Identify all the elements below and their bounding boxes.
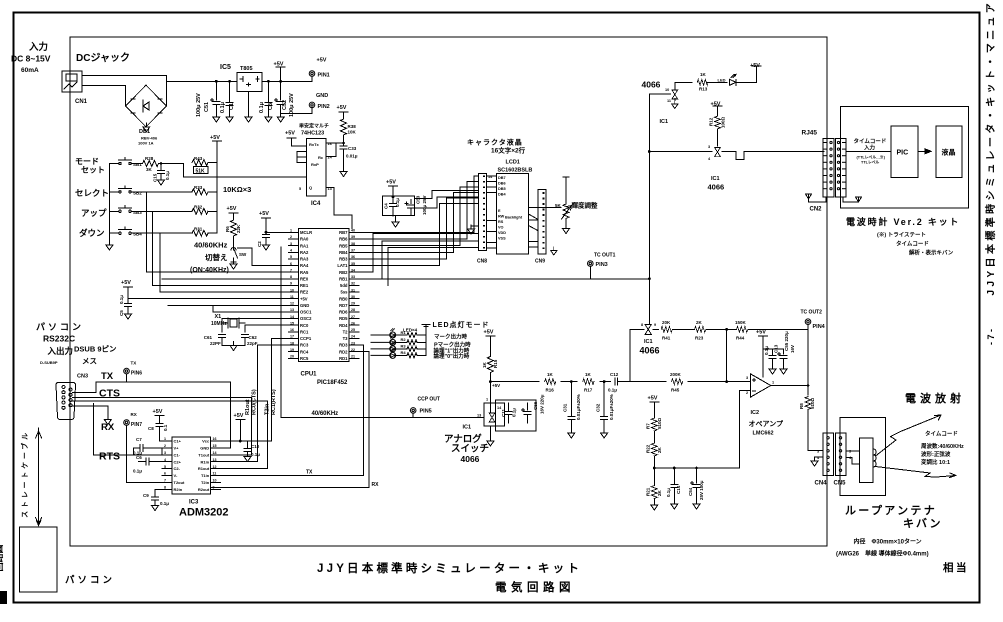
svg-text:R1out: R1out: [198, 466, 210, 471]
svg-text:10: 10: [665, 88, 669, 92]
svg-text:8: 8: [641, 323, 643, 327]
svg-text:RA2: RA2: [300, 250, 309, 255]
wire LED row to rail: [419, 354, 426, 356]
svg-text:入力: 入力: [28, 41, 48, 53]
wire CN2 ground hook right: [843, 197, 859, 202]
svg-text:入力: 入力: [863, 144, 876, 152]
svg-text:セレクト: セレクト: [75, 188, 109, 198]
svg-text:メス: メス: [82, 357, 97, 366]
wire gate to R13: [675, 82, 692, 90]
wire CN4 ground pin: [815, 457, 823, 461]
svg-text:RxTx: RxTx: [309, 142, 320, 147]
svg-text:3K: 3K: [146, 167, 153, 172]
capacitor C54 100u 25V: [691, 467, 701, 509]
svg-text:22: 22: [351, 348, 355, 352]
resistor R17 1K: [583, 379, 594, 385]
svg-text:R2in: R2in: [174, 487, 183, 492]
svg-text:IC3: IC3: [189, 500, 199, 506]
svg-text:DSUB 9ピン: DSUB 9ピン: [74, 344, 117, 354]
connector pin PIN4 TC OUT2: [805, 319, 811, 330]
svg-text:40/60KHz: 40/60KHz: [194, 241, 228, 250]
svg-text:C1+: C1+: [174, 439, 182, 444]
left margin black mark: [0, 591, 7, 604]
wire pot wiper to LCD: [529, 207, 562, 209]
wire CN8 to LCD stubs: [487, 176, 497, 248]
svg-text:0.1μ: 0.1μ: [251, 452, 260, 457]
resistor R31: [192, 230, 217, 236]
connector pin PIN6 TX: [124, 368, 130, 382]
IC3 ADM3202 box: [172, 437, 211, 494]
capacitor C1 0.1u: [226, 81, 233, 122]
svg-text:17: 17: [290, 335, 294, 339]
svg-text:RX: RX: [372, 482, 380, 488]
resistor R22 2K: [651, 443, 657, 468]
resistor R43 51K: [192, 160, 208, 166]
wire T2in vertical: [211, 401, 268, 469]
svg-text:C53: C53: [416, 195, 421, 204]
capacitor C55 220u 16V: [773, 349, 788, 374]
svg-text:GND: GND: [300, 303, 309, 308]
connector CN5: [836, 433, 846, 476]
svg-text:R1out: R1out: [245, 399, 251, 415]
wire IC4 pin16 to R38: [326, 136, 344, 143]
svg-text:Vcc: Vcc: [202, 439, 210, 444]
svg-text:DCジャック: DCジャック: [76, 52, 130, 64]
svg-text:SB1: SB1: [133, 162, 142, 167]
svg-text:C31: C31: [563, 403, 568, 412]
svg-text:0.1μ: 0.1μ: [165, 171, 170, 180]
svg-text:タイムコード: タイムコード: [925, 430, 958, 438]
svg-text:RC0: RC0: [300, 323, 309, 328]
svg-text:内径 Φ30mm×10ターン: 内径 Φ30mm×10ターン: [854, 538, 922, 546]
svg-text:C10: C10: [251, 444, 260, 449]
svg-text:セット: セット: [81, 166, 105, 175]
wire LED row to rail: [419, 334, 426, 336]
svg-text:R12: R12: [709, 117, 714, 126]
svg-text:0.01μ: 0.01μ: [346, 154, 358, 159]
svg-text:JJY日本標準時シミュレーター・キット: JJY日本標準時シミュレーター・キット: [317, 561, 582, 575]
svg-text:GND: GND: [200, 446, 209, 451]
svg-text:キバン: キバン: [903, 517, 943, 530]
svg-text:(TTLレベル…※): (TTLレベル…※): [857, 155, 886, 160]
power +5V for MCLR: [262, 218, 289, 232]
svg-text:14: 14: [488, 175, 493, 179]
junction rail/TC bus: [648, 277, 651, 280]
svg-text:R2: R2: [401, 337, 407, 342]
svg-text:0.1μ: 0.1μ: [764, 346, 769, 355]
capacitor C61 22pF: [219, 335, 234, 346]
power +5V for IC4: [287, 138, 307, 146]
svg-text:Q: Q: [309, 185, 312, 190]
svg-text:R23: R23: [695, 336, 704, 341]
wire IC4 input pins: [297, 152, 307, 163]
svg-text:+5V: +5V: [210, 135, 220, 141]
svg-text:R13: R13: [699, 87, 708, 92]
svg-text:5: 5: [290, 255, 292, 259]
svg-text:RB5: RB5: [339, 243, 348, 248]
pushbutton SB2: [109, 186, 192, 193]
arrow PIC to LCD: [918, 149, 931, 154]
wire rail into switch: [489, 382, 491, 412]
capacitor C12 0.1u coupling: [615, 378, 618, 385]
wire loop mid vertical: [726, 329, 728, 381]
svg-text:C15: C15: [153, 173, 158, 182]
svg-text:R22: R22: [646, 444, 651, 453]
svg-text:RB6: RB6: [339, 237, 348, 242]
wire MCLR vertical bus: [281, 247, 484, 418]
svg-text:25V 100μ: 25V 100μ: [699, 480, 704, 500]
svg-text:R6: R6: [225, 226, 230, 232]
svg-text:30: 30: [351, 295, 355, 299]
resistor R32: [192, 208, 217, 214]
svg-text:1: 1: [772, 381, 774, 385]
svg-text:LED点灯モード: LED点灯モード: [433, 320, 490, 329]
svg-text:CN8: CN8: [477, 259, 487, 265]
svg-text:CN1: CN1: [75, 99, 88, 105]
svg-text:ストレートケーブル: ストレートケーブル: [20, 430, 29, 518]
svg-text:C3: C3: [268, 103, 274, 110]
resistor R13 1K: [697, 79, 708, 85]
svg-text:+5V: +5V: [756, 330, 766, 336]
resistor R23 2K: [695, 326, 727, 332]
svg-text:RD1: RD1: [339, 356, 348, 361]
resistor R38 10K: [341, 117, 347, 143]
svg-text:+5V: +5V: [285, 131, 295, 137]
svg-text:5dd: 5dd: [340, 283, 348, 288]
svg-text:+5V: +5V: [259, 211, 269, 217]
svg-text:19: 19: [290, 348, 294, 352]
svg-text:RS232C: RS232C: [43, 334, 75, 344]
svg-text:C1-: C1-: [174, 452, 181, 457]
svg-text:5: 5: [164, 465, 166, 469]
wire LED common rail: [425, 329, 427, 356]
svg-text:PIN2: PIN2: [318, 104, 330, 110]
ground CN8 RW: [468, 225, 475, 234]
svg-text:PIN5: PIN5: [420, 409, 432, 415]
svg-text:+5V: +5V: [386, 180, 396, 186]
op-amp IC2 LMC662: [751, 374, 771, 397]
svg-text:IC1: IC1: [644, 339, 653, 345]
svg-text:TTLレベル: TTLレベル: [861, 160, 880, 165]
svg-text:3: 3: [164, 451, 166, 455]
svg-text:RB4: RB4: [339, 250, 348, 255]
svg-text:DB5: DB5: [498, 187, 506, 191]
antenna coil: [860, 438, 877, 483]
power C4 filter box: [383, 196, 415, 215]
LED D3 row: [371, 342, 406, 351]
svg-text:RD7: RD7: [339, 303, 348, 308]
radio wave arrow lower: [876, 467, 957, 478]
wire PIN2 to ground rail: [281, 108, 312, 114]
svg-text:C7: C7: [136, 437, 142, 442]
svg-text:RxP: RxP: [311, 162, 319, 167]
svg-text:22pF: 22pF: [247, 341, 258, 346]
svg-text:+5V: +5V: [711, 102, 721, 108]
wire long data to CN9 a: [359, 234, 479, 273]
svg-text:Rc: Rc: [318, 155, 324, 160]
svg-text:RC4: RC4: [300, 349, 309, 354]
svg-text:R8: R8: [799, 403, 804, 409]
ground for slide switch: [230, 260, 237, 269]
svg-text:RC3: RC3: [300, 343, 309, 348]
connector pin PIN7 RX: [124, 420, 172, 483]
wire LCD to CN9 stubs: [529, 214, 539, 247]
svg-text:E: E: [498, 209, 501, 213]
svg-text:74HC123: 74HC123: [301, 131, 324, 137]
svg-text:RC5: RC5: [300, 356, 309, 361]
svg-text:2K: 2K: [657, 489, 662, 496]
svg-text:+5V: +5V: [300, 296, 308, 301]
svg-text:0.01μF±20%: 0.01μF±20%: [609, 394, 614, 420]
svg-text:RD2: RD2: [339, 349, 348, 354]
svg-text:ダウン: ダウン: [79, 228, 105, 238]
svg-text:SB4: SB4: [133, 232, 142, 237]
svg-text:VO: VO: [498, 226, 504, 230]
svg-text:解析・表示キバン: 解析・表示キバン: [909, 249, 954, 257]
wire long data to CN9 c: [388, 247, 479, 285]
wire RC0 vertical: [211, 398, 252, 455]
svg-text:18: 18: [290, 341, 294, 345]
svg-text:PIN7: PIN7: [131, 422, 142, 428]
svg-text:40/60KHz: 40/60KHz: [312, 411, 339, 417]
svg-text:16V: 16V: [790, 345, 795, 353]
ADM right pin numbers: [213, 437, 217, 489]
svg-text:R17: R17: [584, 388, 593, 393]
svg-text:タイムコード: タイムコード: [896, 240, 929, 248]
svg-text:LCD1: LCD1: [506, 160, 520, 166]
capacitor C51 100u 25V: [210, 81, 220, 122]
svg-text:キャラクタ液晶: キャラクタ液晶: [467, 138, 523, 147]
loop antenna board box: [840, 418, 885, 496]
svg-text:0.1μ: 0.1μ: [512, 408, 517, 417]
svg-text:28: 28: [351, 308, 355, 312]
svg-text:波形:正弦波: 波形:正弦波: [921, 450, 951, 458]
svg-text:+5V: +5V: [492, 383, 500, 388]
svg-text:26: 26: [351, 321, 355, 325]
svg-text:7: 7: [290, 268, 292, 272]
svg-text:CPU1: CPU1: [301, 372, 318, 378]
connector CN4: [823, 433, 833, 476]
ground CN9 bottom: [551, 247, 557, 255]
wire main +V rail to IC5: [167, 80, 237, 82]
svg-text:0.1: 0.1: [163, 424, 168, 431]
svg-text:液晶: 液晶: [942, 148, 956, 157]
svg-text:RC0(CTS): RC0(CTS): [252, 389, 258, 415]
resistor R15 1K: [487, 341, 493, 382]
svg-text:0.1μ: 0.1μ: [395, 198, 400, 207]
svg-text:R28: R28: [145, 156, 154, 161]
svg-text:電波放射: 電波放射: [905, 391, 965, 405]
CPU right pin numbers: [351, 229, 355, 359]
analog switch gate symbol: [489, 413, 495, 422]
svg-text:10: 10: [213, 479, 217, 483]
svg-text:9: 9: [290, 282, 292, 286]
junction loop mid: [725, 328, 728, 331]
wire CTS row: [73, 398, 268, 401]
svg-text:0.1μ: 0.1μ: [160, 501, 169, 506]
svg-text:JJY日本標準時シミュレータ・キット・マニュアル: JJY日本標準時シミュレータ・キット・マニュアル: [984, 0, 997, 295]
inner schematic boundary box: [70, 37, 827, 546]
svg-text:C12: C12: [610, 372, 619, 377]
CPU left pin names: [300, 230, 312, 361]
resistor R44 150K: [727, 326, 808, 332]
svg-text:11: 11: [290, 295, 294, 299]
svg-text:23: 23: [351, 341, 355, 345]
svg-text:2: 2: [746, 391, 748, 395]
svg-text:+5V: +5V: [648, 396, 658, 402]
svg-text:C14: C14: [676, 485, 681, 494]
pushbutton SB1: [109, 158, 139, 165]
ground for switch rail: [106, 241, 113, 250]
svg-text:Backlight: Backlight: [505, 216, 523, 220]
resistor R21 2K: [651, 468, 658, 510]
wire TX from CPU: [211, 345, 364, 476]
capacitor C4 0.1u: [390, 196, 397, 216]
svg-text:RB0: RB0: [339, 296, 348, 301]
svg-text:MCLR: MCLR: [300, 230, 312, 235]
connector pin PIN3 TC OUT1: [588, 261, 594, 279]
regulator IC5 box: [237, 73, 262, 92]
capacitor C33 0.01u: [340, 142, 347, 177]
ground for crystal: [230, 342, 237, 351]
svg-text:5: 5: [299, 187, 301, 191]
svg-text:TC OUT1: TC OUT1: [594, 253, 616, 259]
svg-text:10K: 10K: [348, 130, 357, 135]
ADM right pin names: [198, 439, 210, 492]
wire feedback top: [653, 328, 694, 330]
svg-text:510Ω: 510Ω: [810, 397, 815, 409]
svg-text:オペアンプ: オペアンプ: [749, 419, 785, 428]
wire bus CPU to CN8 staircase: [359, 176, 479, 265]
wire SB4 staircase to CPU: [160, 233, 288, 292]
svg-text:LAT1: LAT1: [337, 263, 348, 268]
svg-text:T1out: T1out: [198, 452, 210, 457]
svg-text:TX: TX: [101, 371, 114, 382]
svg-text:10MHz: 10MHz: [211, 321, 227, 327]
ground bar for LED rail: [422, 325, 430, 329]
straight cable arrow: [36, 428, 42, 526]
svg-text:C56: C56: [533, 401, 538, 410]
wire R45 row: [630, 381, 751, 383]
svg-text:14: 14: [290, 315, 294, 319]
svg-text:RB2: RB2: [339, 270, 348, 275]
svg-text:C2-: C2-: [174, 466, 181, 471]
svg-text:1K: 1K: [547, 372, 554, 377]
wire GND row to CPU: [168, 304, 289, 306]
resistor R6 pullup: [231, 218, 237, 248]
svg-text:C2+: C2+: [174, 459, 182, 464]
svg-text:T805: T805: [240, 66, 253, 72]
svg-text:12: 12: [213, 465, 217, 469]
svg-text:9: 9: [654, 323, 656, 327]
junction at C52: [279, 80, 282, 83]
crystal X1 10MHz: [222, 318, 289, 332]
svg-text:100V 1A: 100V 1A: [138, 141, 154, 146]
power +5V for R38: [339, 112, 348, 117]
svg-text:RA4: RA4: [300, 263, 309, 268]
wire slide switch to CPU RA4: [238, 248, 289, 266]
svg-text:R45: R45: [671, 388, 680, 393]
resistor R28: [139, 161, 184, 167]
svg-text:+5V: +5V: [234, 413, 244, 419]
brightness pot 5K 輝度調整: [562, 177, 572, 224]
wire opamp plus input: [654, 390, 750, 468]
svg-text:PIN1: PIN1: [318, 73, 330, 79]
svg-text:V-: V-: [174, 473, 178, 478]
svg-text:R43: R43: [194, 156, 203, 161]
junction at C1: [228, 80, 231, 83]
svg-text:マーク出力時: マーク出力時: [434, 333, 468, 341]
svg-text:2K: 2K: [657, 446, 662, 453]
radio wave arrow upper: [876, 415, 941, 456]
junction output: [807, 384, 810, 387]
capacitor C11 0.1u: [505, 403, 512, 423]
capacitor C14 0.1u: [671, 467, 678, 509]
svg-text:パソコン: パソコン: [65, 574, 115, 586]
svg-text:PIN4: PIN4: [813, 324, 826, 330]
svg-text:+5V: +5V: [227, 206, 237, 212]
svg-text:RA1: RA1: [300, 243, 309, 248]
svg-text:11: 11: [667, 99, 671, 103]
switch gate IC1d feedback: [645, 324, 651, 334]
svg-text:R31: R31: [194, 226, 203, 231]
svg-text:R3: R3: [401, 344, 407, 349]
ground CN4: [811, 457, 818, 466]
svg-text:0.1μ: 0.1μ: [608, 388, 617, 393]
capacitor C6: [139, 458, 173, 465]
svg-text:39: 39: [351, 235, 355, 239]
wire R43 to +5V rail: [184, 163, 307, 177]
ground for gate: [672, 99, 678, 109]
svg-text:22K: 22K: [236, 224, 241, 233]
svg-text:CN9: CN9: [535, 259, 545, 265]
svg-text:DC 8~15V: DC 8~15V: [11, 54, 51, 64]
svg-text:R4: R4: [401, 350, 407, 355]
capacitor C31 0.01uF: [568, 382, 575, 438]
svg-text:RA3: RA3: [300, 257, 309, 262]
wire +5V box to CN8 top: [415, 191, 479, 208]
svg-text:4066: 4066: [708, 183, 725, 192]
svg-text:1K: 1K: [700, 72, 707, 77]
svg-text:C6: C6: [136, 455, 142, 460]
svg-text:2K: 2K: [696, 320, 703, 325]
capacitor C53 100u 25V: [405, 200, 415, 216]
svg-text:LED: LED: [718, 78, 726, 83]
svg-text:タイムコード: タイムコード: [854, 137, 887, 145]
ground DSUB shell: [73, 406, 108, 420]
wire TC OUT1 bus right: [359, 278, 649, 280]
svg-text:13: 13: [213, 458, 217, 462]
svg-text:24: 24: [351, 335, 355, 339]
wire IC5 ground pin: [245, 92, 252, 123]
svg-text:DB7: DB7: [498, 176, 506, 180]
svg-text:R32: R32: [194, 204, 203, 209]
power +5V for C10: [236, 420, 245, 442]
wire switch to ground: [489, 426, 491, 441]
svg-text:RD5: RD5: [339, 316, 348, 321]
ground for switch: [487, 437, 494, 446]
ADM left pin numbers: [164, 437, 166, 489]
junction R15 output: [489, 380, 492, 383]
resistor R12 100: [715, 111, 721, 146]
svg-text:CN4: CN4: [815, 481, 828, 487]
capacitor C62 22pF: [234, 335, 249, 346]
CPU right pin stubs: [349, 232, 359, 358]
wire IC4 Q output to CPU: [326, 188, 352, 229]
connector pin PIN5 CCP OUT: [410, 408, 416, 418]
svg-text:電気回路図: 電気回路図: [495, 580, 575, 594]
svg-text:入出力: 入出力: [47, 346, 74, 356]
